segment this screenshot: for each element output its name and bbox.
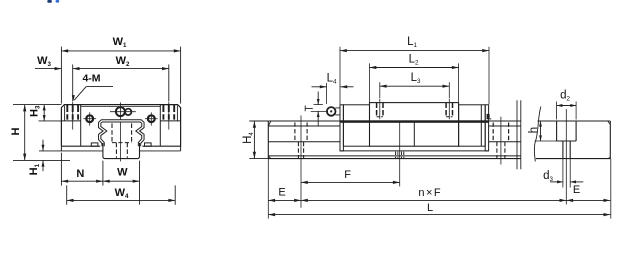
- dimension H4: [242, 121, 268, 159]
- rail top chamfer line: [268, 125, 521, 127]
- rail lower part below block: [103, 143, 140, 159]
- rail top edge through block (thick): [340, 120, 489, 123]
- right cap inner edge line: [480, 105, 482, 146]
- svg-text:F: F: [344, 169, 351, 181]
- dimension L1: [340, 36, 489, 104]
- dimension nxF: [301, 187, 566, 202]
- dimension h: [528, 121, 557, 141]
- rail break lines: [517, 100, 541, 169]
- rail mounting hole 3 counterbore hidden: [493, 123, 508, 142]
- right end seal plate: [485, 105, 488, 151]
- svg-text:H: H: [10, 127, 22, 135]
- rail hole 1 centerline: [300, 116, 302, 208]
- right end grease port boss: [487, 114, 492, 119]
- rail through hole hidden lines front: [116, 143, 127, 158]
- block mid joint line: [413, 123, 415, 147]
- dimension L4: [312, 73, 354, 104]
- left end cap: [343, 105, 369, 146]
- svg-text:N: N: [76, 168, 84, 180]
- dimension W2: [73, 55, 169, 101]
- dimension F: [301, 169, 400, 184]
- block threaded hole 1 top hidden lines: [377, 103, 383, 117]
- dimension W3: [35, 55, 61, 70]
- rail left end: [268, 121, 271, 159]
- block seal bottom line: [340, 150, 489, 152]
- svg-text:W: W: [117, 167, 128, 179]
- svg-text:h: h: [528, 127, 540, 133]
- svg-text:4-M: 4-M: [82, 72, 100, 84]
- rail mounting hole 1 through hidden: [298, 142, 303, 159]
- bottom seal tabs: [91, 143, 151, 146]
- rail side step line: [268, 141, 521, 143]
- sectioned counterbore: [557, 121, 577, 141]
- right ear hole centerline: [168, 102, 170, 130]
- rail mounting hole 1 counterbore hidden: [295, 122, 307, 141]
- 4-M threaded holes hidden lines left ear: [67, 105, 78, 120]
- blue cropped text marks top: [47, 0, 59, 3]
- view vertical centerline: [119, 102, 121, 161]
- grease nipple front: large circle: [116, 107, 125, 116]
- seal bottom line: [39, 146, 181, 151]
- dimension E left: [268, 157, 301, 219]
- right mounting hole on block face: [145, 112, 158, 125]
- 4-M threaded holes hidden lines right ear: [163, 105, 174, 120]
- dimension N: [61, 153, 103, 186]
- carriage block side view body: [370, 103, 459, 147]
- carriage block front view outline: [61, 105, 180, 147]
- rail mounting hole 2 hidden lines under block: [396, 152, 404, 159]
- svg-text:E: E: [278, 186, 285, 198]
- dimension L2: [370, 53, 459, 102]
- sectioned through hole: [563, 141, 570, 159]
- left mounting hole on block face: [83, 112, 96, 125]
- svg-text:n×F: n×F: [418, 187, 441, 199]
- grease nipple side view: [327, 107, 340, 116]
- dimension E right: [566, 184, 610, 202]
- block hole 2 centerline: [448, 99, 450, 120]
- dimension L: [268, 159, 611, 219]
- block hole 1 centerline: [379, 99, 381, 120]
- label 4-M with leader: [72, 72, 113, 101]
- rail bottom edge: [268, 158, 521, 160]
- nipple height small dimension: [305, 92, 328, 126]
- svg-text:L: L: [427, 202, 433, 214]
- rail counterbore hidden lines front: [112, 123, 132, 142]
- dimension d3: [543, 159, 583, 188]
- dimension H: [10, 105, 70, 161]
- left ear hole centerline: [72, 102, 74, 130]
- dimension L3: [380, 72, 450, 98]
- dimension W1: [61, 36, 180, 104]
- dimension W4: [67, 185, 176, 204]
- rail hole 3 centerline: [500, 117, 502, 165]
- rail side view top edge: [268, 120, 521, 122]
- dimension d2: [557, 89, 577, 119]
- rail sectioned end piece: [536, 121, 611, 159]
- section hole centerline: [565, 109, 567, 205]
- rail bottom chamfer line: [268, 155, 521, 157]
- left end seal plate: [340, 105, 343, 151]
- dimension H3: [29, 105, 62, 121]
- dimension W: [103, 161, 140, 205]
- grease nipple front: small circle: [125, 109, 131, 115]
- svg-text:E: E: [573, 184, 580, 196]
- nipple horizontal centerline: [110, 111, 136, 113]
- rail mounting hole 3 through hidden: [497, 142, 505, 159]
- rail hole 2 centerline: [399, 122, 401, 187]
- block threaded hole 2 top hidden lines: [446, 103, 452, 117]
- rail cross-section profile with block cavity double line: [100, 121, 143, 146]
- dimension H1: [28, 140, 44, 176]
- right end cap: [459, 105, 486, 146]
